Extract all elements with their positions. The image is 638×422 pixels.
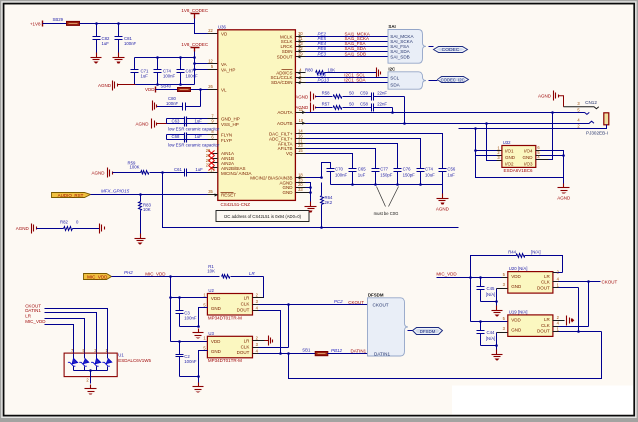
pin 8 stub FLYN <box>208 129 218 134</box>
svg-text:SDIN: SDIN <box>282 49 293 54</box>
svg-text:FLYP: FLYP <box>221 138 232 143</box>
svg-text:R82: R82 <box>60 220 68 225</box>
svg-text:CLK: CLK <box>541 323 550 328</box>
ground AGND CN12 <box>538 91 564 107</box>
svg-text:22: 22 <box>208 28 213 33</box>
pin 17 stub MICIN1 <box>208 168 218 173</box>
diode D4 of U1 <box>102 354 112 371</box>
wire rail to U2 VDD <box>171 297 208 299</box>
harness DFSDM <box>368 292 409 356</box>
svg-text:C65: C65 <box>358 167 366 172</box>
port label PB12 <box>331 348 343 353</box>
wire SAI1_SDB <box>306 56 389 58</box>
wire I2C1_SDA <box>306 82 389 84</box>
svg-text:MIC_VDD: MIC_VDD <box>145 272 166 277</box>
resistor R57 <box>316 101 355 109</box>
ground C82 <box>91 53 102 64</box>
svg-text:LR: LR <box>544 274 551 279</box>
diode array U1 ESDALC6V1W5 <box>64 353 151 377</box>
pin 2 stub U19 <box>553 315 565 321</box>
wire C3 gnd join <box>180 326 199 328</box>
wire MIC_VDD rail <box>169 277 181 343</box>
svg-text:VDD: VDD <box>211 296 221 301</box>
pin VD 22 <box>208 28 218 33</box>
op-amp U20 MP34DT01 N/A <box>508 266 553 293</box>
wire C44 gnd join <box>481 345 497 347</box>
svg-text:AGND: AGND <box>98 83 112 88</box>
pin 4 stub U19 <box>553 321 589 327</box>
svg-text:100nF: 100nF <box>166 101 179 106</box>
svg-text:C58: C58 <box>360 101 368 106</box>
svg-text:[N/A]: [N/A] <box>531 249 541 254</box>
note low ESR 1 <box>168 126 220 131</box>
wire SB1 to DFSDM <box>328 353 375 355</box>
wire C45 gnd join <box>481 301 497 303</box>
svg-text:AGND: AGND <box>91 171 105 176</box>
svg-text:LR: LR <box>544 317 551 322</box>
ground tick U3 LR <box>265 336 273 346</box>
wire C2 gnd join <box>180 376 199 378</box>
harness entry SAI_SDB <box>390 55 409 60</box>
svg-text:100nF: 100nF <box>163 74 176 79</box>
svg-text:35: 35 <box>208 189 213 194</box>
svg-text:GND_HP: GND_HP <box>221 117 240 122</box>
svg-text:15: 15 <box>298 148 303 153</box>
port label PE3 <box>318 52 327 57</box>
wire sleeve AGND branch <box>476 156 564 178</box>
svg-text:CODEC: CODEC <box>442 47 460 53</box>
svg-text:U3: U3 <box>208 331 214 336</box>
svg-text:1V8_CODEC: 1V8_CODEC <box>181 8 209 13</box>
svg-text:CODEC_I2C: CODEC_I2C <box>441 78 465 83</box>
port AUDIO_RST <box>52 193 91 199</box>
svg-text:MFX_GPIO15: MFX_GPIO15 <box>101 189 130 194</box>
capacitor C58 <box>343 101 393 111</box>
ground U3 <box>193 377 204 393</box>
pin 1 stub U19 <box>553 327 579 332</box>
note I2C address <box>216 211 309 222</box>
svg-text:SB40: SB40 <box>161 84 172 89</box>
pin 5 stub U20 <box>502 272 508 278</box>
ground AGND R57 <box>295 103 315 113</box>
svg-text:GND: GND <box>283 190 294 195</box>
ground AGND R58 <box>295 92 315 102</box>
svg-text:I/O3: I/O3 <box>524 161 533 166</box>
wire +1V8 to SB29 <box>43 23 67 25</box>
svg-text:C61: C61 <box>174 167 182 172</box>
svg-text:C74: C74 <box>425 167 433 172</box>
ground GND R82 <box>100 224 105 234</box>
solder bridge SB40 <box>161 84 191 92</box>
wire MIC_VDD <box>112 275 220 278</box>
svg-text:C44: C44 <box>487 330 495 335</box>
port label PC2 <box>334 299 343 304</box>
pin 18 stub MICIN2 <box>296 172 306 179</box>
wire MICIN2 row <box>306 177 322 179</box>
svg-text:MIC_VDD: MIC_VDD <box>436 271 457 276</box>
wire filter feed y138.8 <box>306 139 421 167</box>
svg-text:1uF: 1uF <box>195 167 203 172</box>
net label SAI1_SDA <box>345 46 367 51</box>
svg-text:100nF: 100nF <box>184 359 197 364</box>
ground AGND VA caps <box>98 81 136 91</box>
net label I2C1_SDA <box>344 78 365 83</box>
svg-text:SB29: SB29 <box>53 17 64 22</box>
harness entry SAI_SDA <box>390 49 410 54</box>
pin 3 stub U32 <box>497 155 502 161</box>
svg-text:SDA: SDA <box>390 82 400 87</box>
harness entry SDA <box>390 82 400 87</box>
port label PG13 <box>318 78 330 83</box>
ground U1 <box>85 385 97 395</box>
svg-text:VDD: VDD <box>145 87 155 92</box>
svg-text:GND: GND <box>511 327 522 332</box>
pin 3 stub U20 <box>503 282 506 287</box>
wire U20 GND <box>495 289 507 303</box>
svg-text:DATIN1: DATIN1 <box>25 308 41 313</box>
pin 2 stub U20 <box>553 269 560 274</box>
svg-text:SAI: SAI <box>388 24 395 29</box>
svg-text:I2C address of CS42L51 is 0x94: I2C address of CS42L51 is 0x94 (AD0=0) <box>224 214 302 219</box>
net label MFX_GPIO15 <box>101 189 130 194</box>
svg-text:AOUTA: AOUTA <box>277 110 292 115</box>
op-amp U3 MP34DT01TR-M <box>207 331 252 363</box>
svg-text:PC2: PC2 <box>334 299 343 304</box>
pin 33 stub <box>296 41 306 48</box>
wire I2C brace to CODEC_I2C <box>429 80 438 82</box>
connector CODEC <box>434 47 468 54</box>
capacitor C74 <box>154 58 176 85</box>
svg-text:AOUTB: AOUTB <box>277 121 293 126</box>
svg-text:VSS_HP: VSS_HP <box>221 122 239 127</box>
svg-text:50: 50 <box>349 101 354 106</box>
svg-text:GND: GND <box>211 306 222 311</box>
svg-text:PH2: PH2 <box>124 270 133 275</box>
pin 26 stub AIN1B no-connect <box>206 153 218 161</box>
pin 23 stub <box>296 143 306 148</box>
pin 3 stub U3 <box>253 342 259 348</box>
wire C59 to AOUTB <box>403 97 406 125</box>
svg-text:AGND: AGND <box>538 94 552 99</box>
svg-text:AUDIO_RST: AUDIO_RST <box>58 193 84 198</box>
svg-text:AGND: AGND <box>135 121 149 126</box>
svg-text:1uF: 1uF <box>358 172 366 177</box>
net label LR stub <box>25 314 84 354</box>
svg-text:GND: GND <box>505 155 516 160</box>
svg-text:C68: C68 <box>172 134 180 139</box>
capacitor C61 <box>163 167 208 176</box>
resistor R58 <box>316 91 355 99</box>
wire U19 GND <box>495 333 507 347</box>
net label CKOUT right <box>602 279 618 284</box>
svg-text:12: 12 <box>208 58 213 63</box>
svg-text:[N/A]: [N/A] <box>486 336 496 341</box>
svg-text:1uF: 1uF <box>447 172 455 177</box>
wire U2 GND <box>197 308 207 328</box>
svg-text:C63: C63 <box>172 118 180 123</box>
svg-text:SDA/CDIN: SDA/CDIN <box>271 80 293 85</box>
svg-text:PG13: PG13 <box>318 78 330 83</box>
connector CODEC_I2C <box>438 77 469 83</box>
svg-text:VDD: VDD <box>511 274 521 279</box>
net label CKOUT <box>348 300 364 305</box>
svg-text:CLK: CLK <box>241 344 250 349</box>
wire DFSDM brace to hex <box>408 330 413 332</box>
wire SAI1_FSA <box>306 46 389 48</box>
port label PE2 <box>318 31 327 36</box>
net label SAI1_FSA <box>345 41 366 46</box>
pin 1 stub U32 <box>497 145 502 150</box>
svg-text:U2: U2 <box>208 288 214 293</box>
svg-text:MIC_VDD: MIC_VDD <box>87 275 108 280</box>
svg-text:50: 50 <box>349 91 354 96</box>
net label SAI1_SCKA <box>345 36 370 41</box>
pin 4 stub U20 <box>553 277 589 282</box>
capacitor C68 FLYN FLYP <box>167 133 208 143</box>
power port +1V8 <box>30 21 43 27</box>
pin 13 stub AGND <box>296 177 306 182</box>
svg-text:17: 17 <box>210 168 215 173</box>
pin 10 stub AOUTB <box>296 118 306 125</box>
pin 35 stub RESET <box>208 189 218 196</box>
net label SAI1_SDB <box>345 52 367 57</box>
svg-text:CLK: CLK <box>241 302 250 307</box>
diode D3 of U1 <box>91 354 101 371</box>
capacitor C71 <box>131 58 149 85</box>
wire AUDIO_RST to RESET <box>91 193 208 196</box>
wire I2C1_SCL <box>306 77 389 79</box>
svg-text:DATIN1: DATIN1 <box>374 351 390 356</box>
pin 4 stub U3 <box>253 348 259 353</box>
power port VDD <box>145 87 156 93</box>
port label PE5 <box>318 36 327 41</box>
pin 16 stub <box>296 134 306 139</box>
harness SAI <box>388 24 426 63</box>
svg-text:10K: 10K <box>207 268 215 273</box>
net label MIC_VDD right <box>436 271 457 276</box>
wire U2 DOUT down <box>259 311 282 355</box>
svg-text:PJ302EB-I: PJ302EB-I <box>586 130 608 135</box>
svg-text:DFSDM: DFSDM <box>368 292 384 297</box>
note must be C0G <box>374 187 399 217</box>
node MICIN1 loop <box>163 173 459 229</box>
capacitor C2 <box>176 342 197 377</box>
wire AOUTB to U32 IO2 <box>487 124 502 161</box>
svg-text:CKOUT: CKOUT <box>602 279 618 284</box>
capacitor C59 <box>343 91 405 101</box>
capacitor C81 <box>115 24 137 53</box>
wire R59 to C61 <box>150 171 185 174</box>
pin 11 stub AOUTA <box>296 107 306 114</box>
ground C81 <box>113 53 125 64</box>
svg-text:10uF: 10uF <box>425 172 435 177</box>
pin 6 stub FLYP <box>208 135 218 140</box>
capacitor C63 GND_HP <box>167 117 208 127</box>
svg-text:C70: C70 <box>335 167 343 172</box>
capacitor C3 <box>176 298 197 327</box>
svg-text:SDOUT: SDOUT <box>277 55 293 60</box>
pin 2 stub U32 <box>497 150 502 156</box>
svg-text:GND: GND <box>511 284 522 289</box>
harness entry SAI_FSA <box>390 44 410 49</box>
wire CLK bus right <box>587 280 590 326</box>
capacitor C77 <box>372 167 393 185</box>
svg-text:DOUT: DOUT <box>537 285 550 290</box>
resistor R44 <box>471 249 563 277</box>
svg-text:VD: VD <box>221 32 228 37</box>
ground AGND filter caps <box>436 185 450 212</box>
resistor R59 <box>113 160 149 174</box>
pin 3 stub U19 <box>503 326 506 331</box>
svg-text:33: 33 <box>298 187 303 192</box>
pin 4 stub AD0/CS <box>296 68 306 75</box>
svg-text:R58: R58 <box>322 91 330 96</box>
port label PH2 <box>124 270 133 275</box>
power port 1V8_CODEC (VA) <box>181 42 209 52</box>
pin 2 stub SDA/CDIN <box>296 77 306 84</box>
wire U32 right to AGND <box>541 151 565 178</box>
svg-text:CN12: CN12 <box>585 100 597 105</box>
svg-text:I/O2: I/O2 <box>505 161 514 166</box>
svg-text:100nF: 100nF <box>335 172 348 177</box>
capacitor C56 <box>439 167 456 185</box>
svg-text:AGND: AGND <box>295 94 309 99</box>
pin 29 stub AIN2A no-connect <box>206 158 218 166</box>
svg-text:PB12: PB12 <box>331 348 343 353</box>
svg-text:2K2: 2K2 <box>325 200 333 205</box>
svg-text:U32: U32 <box>503 140 511 145</box>
pin 7 stub GND_HP <box>208 113 218 118</box>
ground U19 <box>492 346 503 361</box>
svg-text:VA: VA <box>221 62 227 67</box>
port label PE6 <box>318 46 327 51</box>
svg-text:22nF: 22nF <box>377 91 387 96</box>
pin 32 stub <box>296 46 306 53</box>
ground R80 AD0 <box>377 68 381 78</box>
svg-text:10K: 10K <box>328 68 336 73</box>
capacitor C76 <box>394 167 416 185</box>
svg-text:SAI_SDB: SAI_SDB <box>390 55 409 60</box>
svg-text:100nF: 100nF <box>184 316 197 321</box>
svg-text:VA_HP: VA_HP <box>221 67 235 72</box>
svg-text:1uF: 1uF <box>195 134 203 139</box>
pin 9 stub VSS_HP <box>208 119 218 124</box>
svg-text:MP34DT01TR-M: MP34DT01TR-M <box>208 358 242 363</box>
svg-text:+1V8: +1V8 <box>30 22 41 27</box>
pin 27 stub AIN2B no-connect <box>206 163 218 171</box>
svg-text:1uF: 1uF <box>195 118 203 123</box>
wire jack sleeve net <box>459 125 607 130</box>
ground AGND R59 <box>91 168 112 178</box>
wire C58 to AOUTA <box>391 108 394 114</box>
net label MIC_VDD stub <box>25 319 73 353</box>
svg-text:PE6: PE6 <box>318 46 327 51</box>
wire DATIN row <box>259 352 316 355</box>
wire MIC_VDD right <box>437 276 508 279</box>
wire C80 to VL node <box>200 90 202 107</box>
pin 5 stub U19 <box>503 316 506 321</box>
svg-text:U20 [N/A]: U20 [N/A] <box>509 266 528 271</box>
capacitor C45 <box>477 278 496 302</box>
capacitor C82 <box>93 24 110 53</box>
svg-text:GND: GND <box>211 349 222 354</box>
svg-text:LR: LR <box>25 314 32 319</box>
port label PE4 <box>318 41 327 46</box>
svg-text:I2C1_SDA: I2C1_SDA <box>344 78 365 83</box>
svg-text:100nF: 100nF <box>124 41 137 46</box>
wire VDD to SB40 <box>156 89 178 91</box>
pin 20 stub GND <box>296 182 306 187</box>
pin VA 12 <box>208 58 218 63</box>
wire 1V8_CODEC to VA VA_HP <box>193 52 207 70</box>
pin 1 stub U20 <box>553 283 579 288</box>
diode D2 of U1 <box>79 354 89 371</box>
wire SB29 to 1V8_CODEC rail <box>80 22 195 25</box>
svg-text:150pF: 150pF <box>380 172 393 177</box>
capacitor C87 <box>177 58 199 85</box>
net label LR <box>249 271 256 276</box>
wire U2 CLK to DFSDM <box>259 303 368 306</box>
wire R44 to U20 LR <box>553 272 563 274</box>
svg-text:MIC_VDD: MIC_VDD <box>25 319 46 324</box>
wire SAI1_MCKA <box>306 36 389 38</box>
capacitor C74 <box>417 167 436 185</box>
pin 1 stub SCL/CCLK <box>296 73 306 80</box>
svg-text:low ESR ceramic capacitor: low ESR ceramic capacitor <box>168 126 220 131</box>
ground AGND R82 <box>16 224 37 234</box>
wire U20 DOUT down <box>577 288 601 333</box>
svg-text:100nF: 100nF <box>186 74 199 79</box>
svg-text:C77: C77 <box>380 167 388 172</box>
pin 31 stub <box>296 36 306 43</box>
svg-text:SCL: SCL <box>390 76 399 81</box>
wire AOUTB line <box>306 122 590 125</box>
svg-text:C45: C45 <box>487 286 495 291</box>
pin 1 stub U3 <box>203 335 206 340</box>
pin 5 stub U2 <box>203 303 206 308</box>
ground chip GND pins <box>305 183 317 213</box>
harness I2C <box>388 66 426 89</box>
svg-text:LR: LR <box>249 271 256 276</box>
wire sleeve to U32 IO1 <box>474 129 501 156</box>
svg-text:C56: C56 <box>447 167 455 172</box>
svg-text:AGND: AGND <box>16 226 30 231</box>
ground U20 <box>492 302 503 317</box>
svg-text:GND: GND <box>523 155 534 160</box>
op-amp U36 CS42L51-CNZ codec body <box>218 25 296 207</box>
wire CLK down to U3 <box>259 305 289 348</box>
svg-text:ESDALC6V1W5: ESDALC6V1W5 <box>118 358 151 363</box>
wire SB40 to VL <box>191 88 208 91</box>
resistor R82 <box>37 220 100 231</box>
pin 33 stub GND <box>296 187 311 193</box>
harness entry DATIN1 <box>374 351 390 356</box>
wire filter feed y143.7 <box>306 144 398 167</box>
wire SAI1_SDA <box>306 51 389 53</box>
wire rail to U19 VDD <box>471 321 508 323</box>
wire DATIN loop <box>289 332 602 379</box>
svg-text:32: 32 <box>298 46 303 51</box>
pin 4 stub U32 <box>536 155 549 160</box>
svg-text:AGND: AGND <box>295 105 309 110</box>
pin 2 stub U3 <box>253 335 265 340</box>
svg-text:LR: LR <box>244 339 251 344</box>
pin 2 stub U2 <box>253 293 264 298</box>
svg-text:U36: U36 <box>218 25 226 30</box>
svg-text:SAI1_SDB: SAI1_SDB <box>345 52 367 57</box>
pin 3 stub U2 <box>253 299 259 304</box>
harness entry SAI_MCKA <box>390 34 414 39</box>
